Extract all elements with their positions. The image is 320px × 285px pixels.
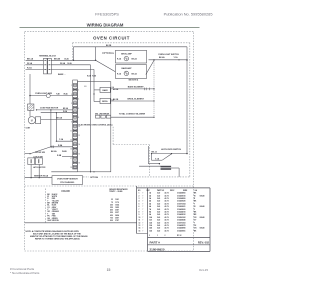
svg-text:†: † [143, 195, 144, 197]
svg-text:DOOR SW: DOOR SW [35, 152, 45, 154]
svg-text:LATCH MOTOR: LATCH MOTOR [33, 166, 46, 169]
svg-text:15: 15 [139, 230, 141, 232]
svg-text:W-1A: W-1A [27, 62, 33, 65]
svg-text:ELECTRONIC OVEN CONTROL (EOC): ELECTRONIC OVEN CONTROL (EOC) [79, 125, 113, 127]
svg-text:318046920: 318046920 [150, 247, 165, 251]
svg-text:316443812: 316443812 [177, 213, 186, 216]
svg-text:R-8B: R-8B [57, 155, 62, 157]
svg-text:†: † [143, 193, 144, 195]
svg-text:Oct-15: Oct-15 [199, 268, 208, 272]
svg-text:Y-1A: Y-1A [174, 56, 179, 59]
svg-text:REF: REF [147, 190, 150, 192]
svg-text:BK-12: BK-12 [152, 152, 157, 154]
svg-text:OVEN LIGHT SWITCH: OVEN LIGHT SWITCH [158, 54, 179, 56]
svg-text:†: † [143, 228, 144, 230]
svg-text:†: † [143, 230, 144, 232]
svg-text:†: † [143, 217, 144, 219]
svg-text:1: 1 [71, 85, 72, 87]
svg-text:316443870: 316443870 [177, 224, 186, 227]
svg-text:WIRING DIAGRAM: WIRING DIAGRAM [87, 22, 124, 27]
svg-text:P/N 316490000: P/N 316490000 [60, 181, 75, 184]
svg-text:WIRE: WIRE [183, 190, 187, 192]
svg-text:†: † [143, 214, 144, 216]
svg-text:VIOLET: VIOLET [52, 209, 58, 211]
svg-text:6: 6 [139, 206, 140, 208]
svg-text:316443910: 316443910 [177, 194, 186, 197]
svg-text:R-8A: R-8A [58, 144, 63, 147]
svg-text:†: † [143, 206, 144, 208]
svg-text:REFER TO IT WHEN SERVICING THE: REFER TO IT WHEN SERVICING THE APPLIANCE… [35, 237, 81, 240]
svg-text:BK-2A: BK-2A [132, 58, 138, 61]
svg-text:316443920: 316443920 [177, 200, 186, 203]
svg-text:SENSOR W-6A: SENSOR W-6A [34, 174, 49, 177]
svg-text:17: 17 [70, 158, 72, 160]
svg-text:11: 11 [139, 220, 141, 222]
svg-text:316075104: 316075104 [177, 202, 186, 205]
svg-text:OPTIONAL: OPTIONAL [102, 52, 115, 55]
svg-text:13: 13 [70, 140, 72, 142]
svg-text:OPTION: OPTION [90, 177, 98, 179]
svg-text:18: 18 [78, 162, 80, 164]
svg-text:BK-3B: BK-3B [113, 99, 119, 101]
svg-text:2424: 2424 [115, 214, 119, 217]
svg-text:Y-2A: Y-2A [59, 138, 64, 141]
svg-text:BAKE →: BAKE → [58, 73, 66, 76]
svg-text:3: 3 [71, 94, 72, 96]
svg-text:12: 12 [78, 135, 80, 137]
svg-text:10-2A: 10-2A [67, 62, 72, 65]
svg-text:OVEN TEMP SENSOR: OVEN TEMP SENSOR [57, 178, 78, 180]
svg-text:BK-8A: BK-8A [51, 150, 57, 153]
svg-text:316436001: 316436001 [177, 205, 186, 208]
svg-text:15: 15 [70, 149, 72, 151]
svg-text:3: 3 [149, 235, 150, 237]
svg-text:†: † [143, 209, 144, 211]
svg-text:TEMP F – OHMS: TEMP F – OHMS [109, 191, 123, 193]
svg-text:10-2A: 10-2A [64, 57, 69, 60]
svg-text:10: 10 [139, 217, 141, 219]
svg-text:316443800: 316443800 [177, 192, 186, 195]
svg-text:BLUE: BLUE [52, 205, 56, 207]
svg-text:RY 02: RY 02 [177, 235, 181, 237]
svg-text:2: 2 [78, 90, 79, 92]
svg-text:3: 3 [139, 198, 140, 200]
svg-text:900: 900 [110, 220, 113, 222]
svg-text:†: † [143, 212, 144, 214]
svg-text:2: 2 [139, 195, 140, 197]
svg-text:BROIL AMP: BROIL AMP [121, 53, 132, 56]
svg-text:†: † [143, 201, 144, 203]
svg-text:BAKE ELEMENT: BAKE ELEMENT [128, 86, 145, 89]
svg-text:11: 11 [70, 131, 72, 133]
svg-text:REV: 002: REV: 002 [198, 240, 210, 244]
svg-text:FFES3025PS: FFES3025PS [95, 12, 119, 17]
svg-text:8: 8 [139, 212, 140, 214]
svg-text:316566102: 316566102 [177, 217, 186, 219]
svg-text:BK-1A: BK-1A [27, 57, 34, 60]
svg-text:13: 13 [139, 225, 141, 227]
svg-text:5: 5 [139, 203, 140, 205]
svg-text:9: 9 [139, 214, 140, 216]
svg-text:T: T [194, 222, 195, 224]
svg-text:BAKE: BAKE [103, 89, 109, 92]
svg-text:9: 9 [71, 121, 72, 123]
svg-text:L1: L1 [85, 86, 87, 88]
svg-text:†: † [143, 222, 144, 224]
svg-text:†: † [143, 225, 144, 227]
svg-text:YELLOW: YELLOW [52, 200, 59, 202]
svg-text:†: † [143, 203, 144, 205]
svg-text:BK-3A: BK-3A [132, 72, 138, 75]
svg-text:BK-9A: BK-9A [56, 116, 63, 119]
svg-text:1: 1 [157, 235, 158, 237]
svg-text:†: † [143, 220, 144, 222]
svg-text:OVEN CIRCUIT: OVEN CIRCUIT [93, 35, 130, 40]
svg-text:BROIL: BROIL [102, 101, 108, 103]
svg-text:2047: 2047 [115, 209, 119, 212]
svg-text:19: 19 [70, 167, 72, 169]
svg-text:7: 7 [71, 112, 72, 114]
svg-text:316075103: 316075103 [177, 222, 186, 224]
svg-text:2: 2 [165, 235, 166, 237]
svg-text:BK-5B: BK-5B [106, 45, 112, 47]
svg-text:LATCH ROD SWITCH: LATCH ROD SWITCH [161, 148, 182, 151]
svg-text:16: 16 [78, 153, 80, 155]
svg-text:BK-4A: BK-4A [159, 56, 165, 59]
svg-text:8: 8 [78, 117, 79, 119]
svg-text:BROIL ELEMENT: BROIL ELEMENT [128, 99, 145, 101]
svg-text:316244200: 316244200 [177, 197, 186, 200]
svg-text:R-1A: R-1A [27, 67, 32, 70]
svg-text:BROWN: BROWN [52, 203, 59, 205]
svg-text:2787: 2787 [115, 220, 119, 222]
svg-text:1: 1 [139, 193, 140, 195]
svg-text:†: † [143, 198, 144, 200]
svg-text:450: 450 [110, 209, 113, 212]
svg-text:6: 6 [78, 108, 79, 110]
svg-text:BK-2B: BK-2B [113, 89, 119, 91]
svg-text:COLOR: COLOR [61, 191, 70, 193]
svg-text:TOTAL CONVECT BLOWER: TOTAL CONVECT BLOWER [119, 113, 146, 116]
svg-text:W-3A: W-3A [60, 62, 66, 65]
svg-text:PART #: PART # [150, 240, 161, 244]
svg-text:316443890: 316443890 [177, 227, 186, 230]
svg-text:GRN/YEL: GRN/YEL [52, 220, 59, 222]
svg-text:15: 15 [107, 268, 111, 272]
svg-text:316443901: 316443901 [177, 229, 186, 232]
svg-text:12: 12 [139, 222, 141, 224]
svg-text:OVEN LIGHT 40W: OVEN LIGHT 40W [35, 92, 52, 95]
svg-text:316443840: 316443840 [177, 219, 186, 222]
svg-text:W-8B: W-8B [62, 151, 67, 153]
svg-text:Publication No. 5995580285: Publication No. 5995580285 [164, 12, 213, 17]
svg-text:M: M [31, 119, 33, 122]
svg-text:5: 5 [71, 103, 72, 105]
svg-text:316244210: 316244210 [177, 211, 186, 214]
svg-text:GREEN: GREEN [52, 218, 59, 220]
svg-text:CONV FAN MOTOR: CONV FAN MOTOR [40, 107, 59, 110]
svg-text:1654: 1654 [115, 203, 119, 206]
svg-text:WHITE: WHITE [52, 196, 57, 198]
svg-text:* Non-Illustrated Parts: * Non-Illustrated Parts [10, 271, 40, 275]
svg-text:316443600: 316443600 [177, 208, 186, 211]
svg-text:BAKE AMP: BAKE AMP [121, 67, 132, 70]
svg-text:TERMINAL BLOCK: TERMINAL BLOCK [39, 55, 57, 58]
svg-text:7: 7 [139, 209, 140, 211]
